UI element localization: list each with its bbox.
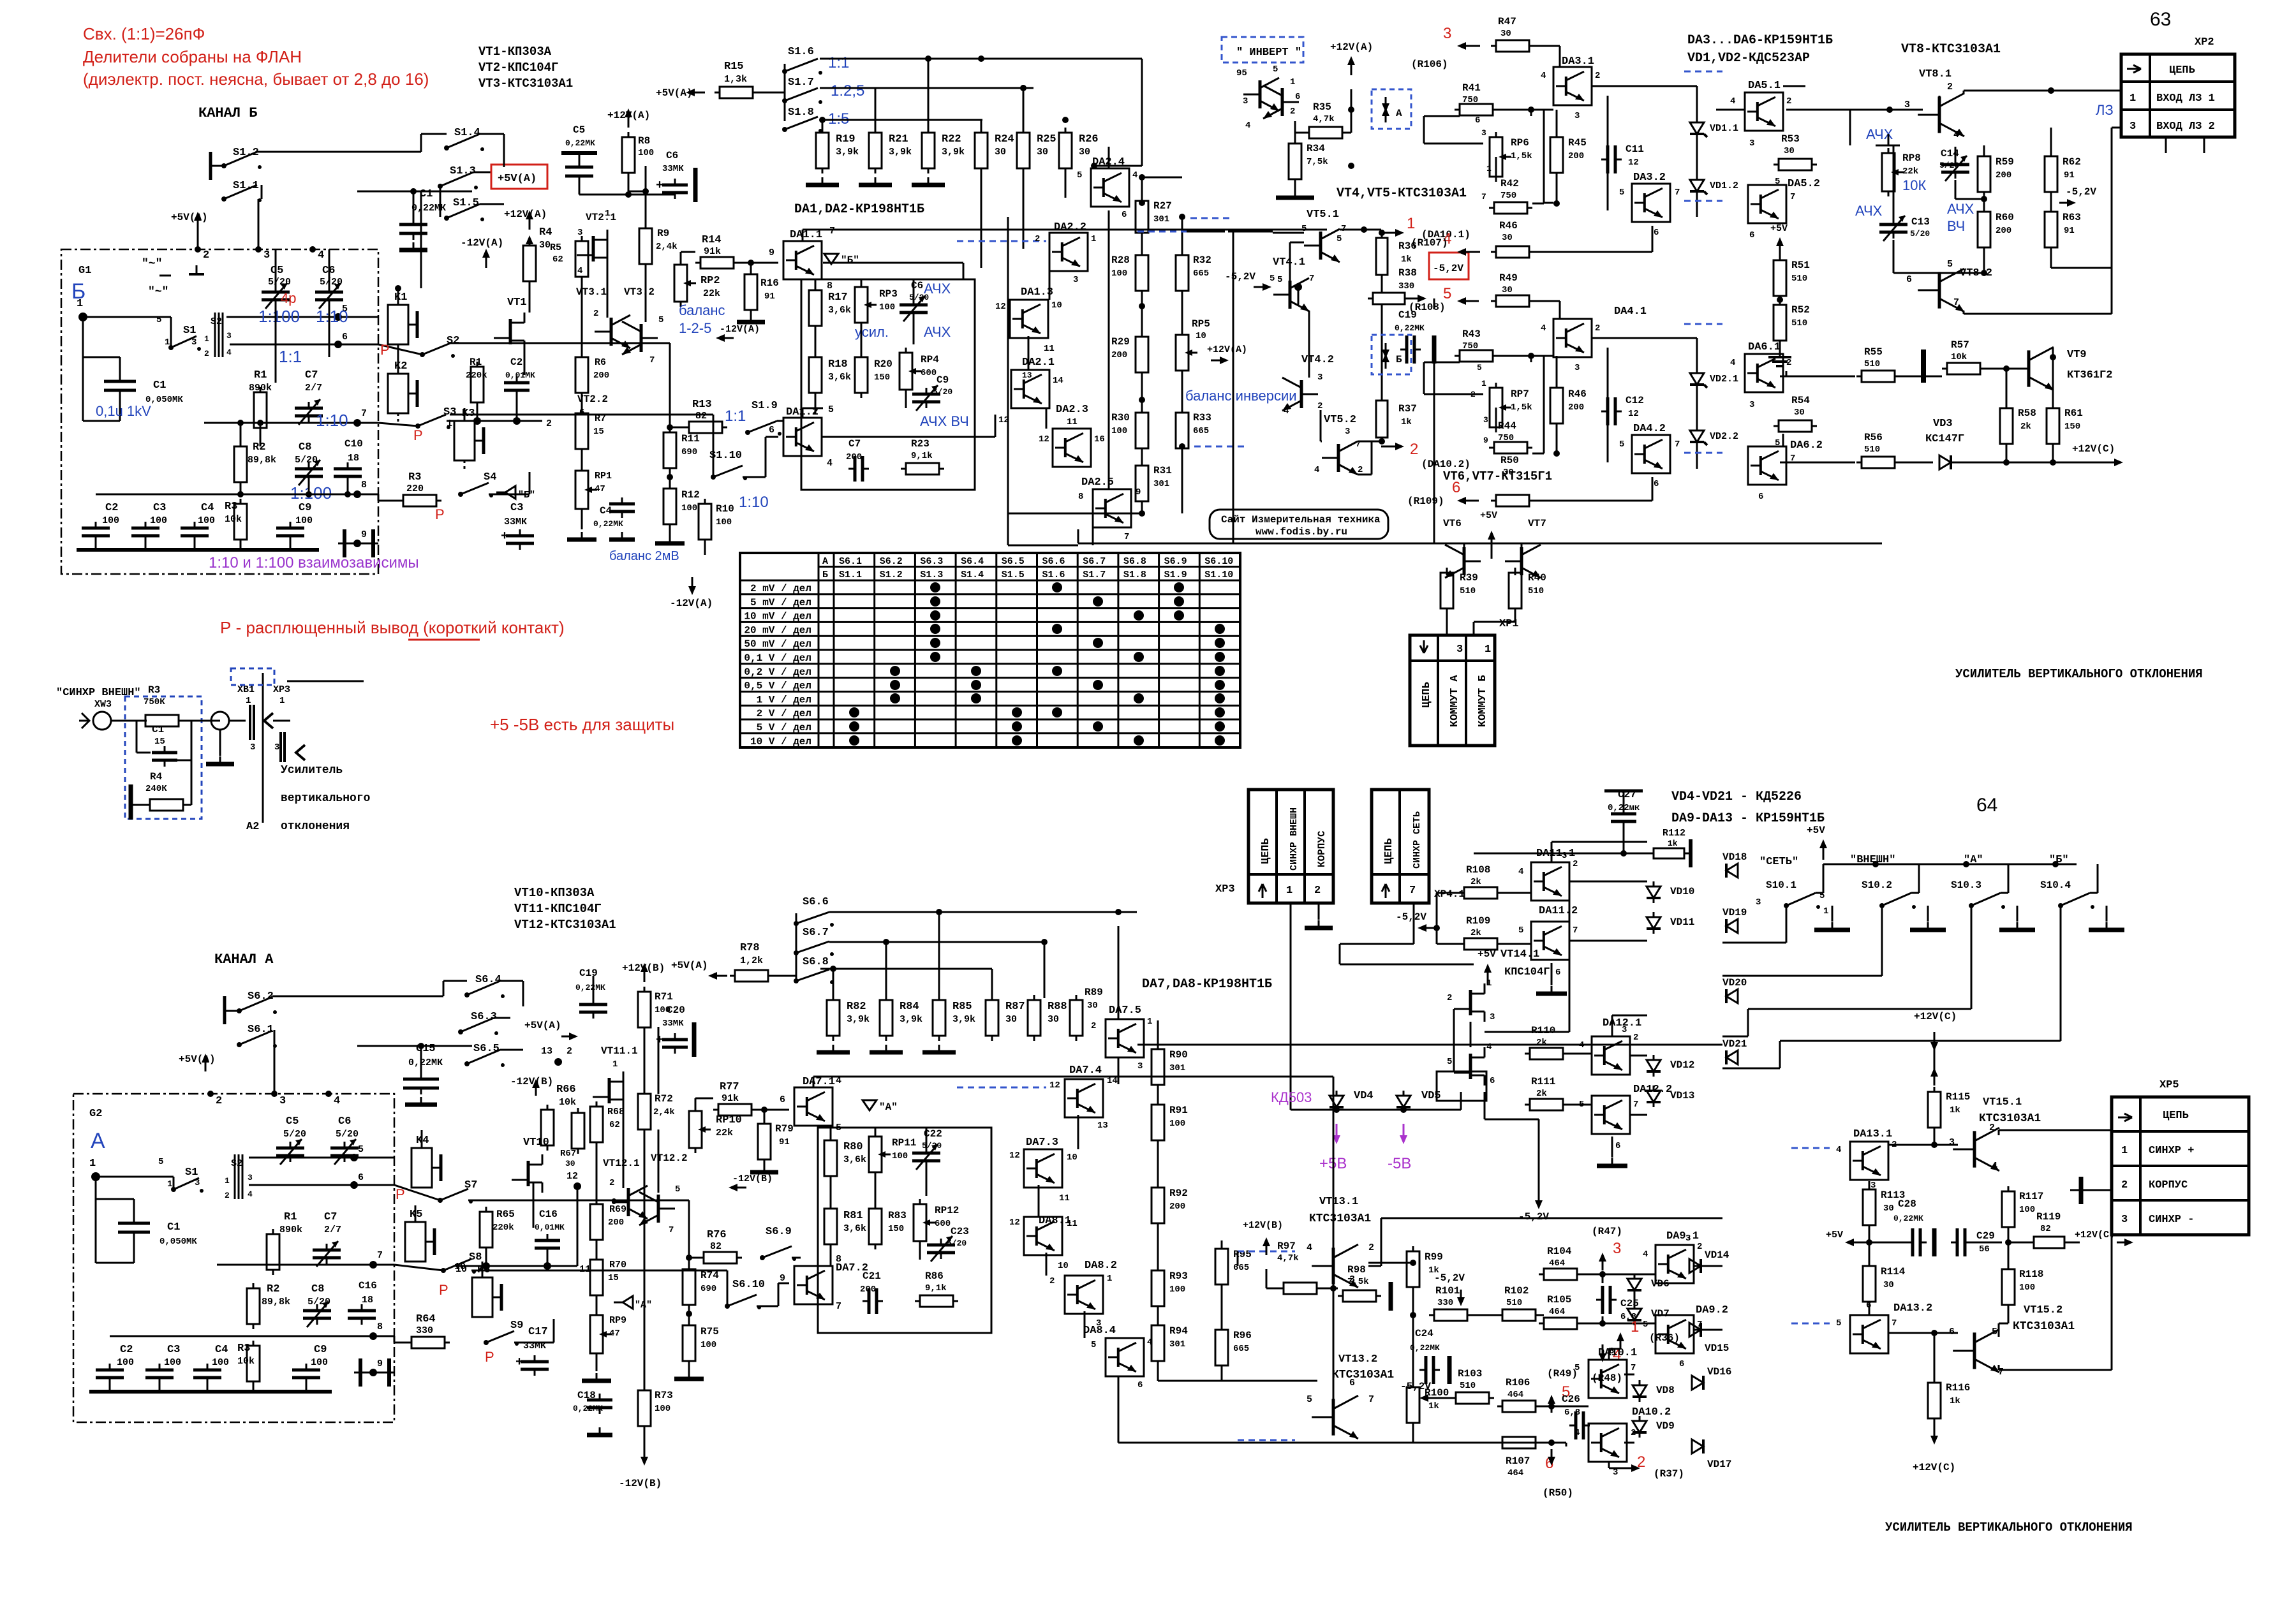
pot RP12 600 (914, 1204, 926, 1241)
svg-text:ВХОД ЛЗ 2: ВХОД ЛЗ 2 (2156, 121, 2215, 133)
svg-text:R14: R14 (702, 234, 722, 246)
svg-text:6,8: 6,8 (1564, 1408, 1580, 1418)
svg-text:200: 200 (608, 1218, 624, 1228)
svg-text:VD4: VD4 (1354, 1090, 1374, 1102)
svg-text:C6: C6 (338, 1115, 351, 1128)
svg-text:R44: R44 (1498, 420, 1516, 432)
svg-text:R69: R69 (609, 1204, 626, 1215)
ground da12 (1611, 1158, 1613, 1166)
svg-text:8: 8 (1078, 492, 1083, 502)
svg-text:62: 62 (552, 254, 563, 265)
resistor R116 1k (1928, 1383, 1941, 1418)
svg-text:R54: R54 (1791, 395, 1810, 406)
svg-text:4: 4 (1314, 465, 1319, 475)
svg-text:4,7k: 4,7k (1277, 1253, 1299, 1263)
wire C10 to bus8 (347, 476, 349, 494)
svg-text:4: 4 (1643, 1249, 1648, 1260)
svg-text:R13: R13 (692, 399, 712, 411)
transistor VT12.2 (657, 1195, 660, 1223)
svg-text:3: 3 (1345, 427, 1350, 437)
svg-text:1:2,5: 1:2,5 (831, 82, 864, 99)
wire VT5.1 out (1340, 229, 1381, 231)
svg-text:C1: C1 (153, 379, 166, 392)
svg-text:-5,2V: -5,2V (1400, 1381, 1431, 1392)
resistor R89 30 (1070, 1000, 1083, 1036)
svg-text:RP8: RP8 (1902, 152, 1921, 164)
svg-text:2 mV / дел: 2 mV / дел (750, 583, 811, 594)
pot RP3 100 (855, 287, 868, 323)
bus DA2 to inv (1137, 231, 1225, 233)
svg-text:VT12-КТС3103А1: VT12-КТС3103А1 (514, 918, 616, 932)
transistor VT13.1 (1332, 1247, 1335, 1284)
svg-text:R24: R24 (995, 133, 1014, 145)
svg-text:VT12.2: VT12.2 (651, 1152, 688, 1164)
svg-text:3: 3 (1574, 363, 1580, 373)
svg-text:7: 7 (1953, 297, 1959, 308)
ground R79 (764, 1165, 766, 1172)
svg-text:4,7k: 4,7k (1313, 114, 1335, 124)
svg-text:50 mV / дел: 50 mV / дел (744, 638, 811, 650)
svg-text:330: 330 (1437, 1298, 1453, 1308)
svg-text:30: 30 (1087, 1001, 1098, 1011)
svg-text:301: 301 (1153, 214, 1169, 224)
svg-text:+12V(С): +12V(С) (2075, 1230, 2115, 1240)
svg-text:6: 6 (1137, 1380, 1143, 1390)
svg-text:15: 15 (154, 737, 165, 747)
diode VD10 (1647, 887, 1661, 898)
svg-text:S6.3: S6.3 (920, 556, 943, 567)
svg-text:464: 464 (1507, 1468, 1523, 1478)
wire VT10 source (533, 1182, 535, 1228)
svg-text:89,8k: 89,8k (262, 1297, 290, 1307)
svg-text:RP1: RP1 (595, 471, 612, 482)
wire bus6A to R74 (468, 1200, 689, 1202)
svg-text:510: 510 (1864, 359, 1880, 369)
svg-text:7: 7 (1309, 274, 1314, 284)
svg-text:R74: R74 (700, 1270, 719, 1281)
svg-text:11: 11 (1059, 1193, 1070, 1203)
resistor R58 2k (2000, 408, 2013, 444)
resistor R72 2.4k (638, 1094, 651, 1130)
pot RP4 600 (900, 353, 912, 390)
svg-text:R64: R64 (416, 1313, 436, 1325)
svg-text:5: 5 (1947, 259, 1953, 270)
svg-text:14: 14 (1107, 1076, 1118, 1086)
svg-text:2k: 2k (1470, 928, 1481, 938)
resistor R10 100 (699, 504, 711, 540)
svg-text:R49: R49 (1499, 272, 1518, 284)
svg-text:3,9k: 3,9k (836, 147, 859, 158)
svg-text:2: 2 (567, 1046, 572, 1057)
svg-text:DA6.2: DA6.2 (1790, 439, 1823, 452)
svg-text:КПС104Г: КПС104Г (1504, 966, 1550, 978)
wire XP3 pin1 down (1290, 903, 1292, 1110)
svg-text:DA7.3: DA7.3 (1026, 1137, 1058, 1149)
svg-text:5: 5 (1307, 1394, 1312, 1405)
svg-text:ХР2: ХР2 (2195, 36, 2214, 48)
svg-text:-12V(А): -12V(А) (670, 598, 713, 609)
svg-text:S6.9: S6.9 (1164, 556, 1187, 567)
svg-text:1: 1 (1486, 978, 1492, 989)
wire VT8.2 emitter out (1963, 311, 1965, 314)
svg-text:1: 1 (1286, 885, 1292, 897)
svg-text:0,22МК: 0,22МК (1410, 1343, 1440, 1353)
svg-text:1: 1 (225, 1176, 230, 1186)
svg-text:DA2.3: DA2.3 (1056, 404, 1088, 416)
svg-text:R66: R66 (556, 1084, 576, 1096)
svg-text:6: 6 (1475, 115, 1480, 126)
resistor R73 100 (638, 1390, 651, 1426)
svg-text:1: 1 (1631, 1318, 1639, 1336)
wire kanalA bus1 (1118, 1397, 1120, 1443)
svg-text:9: 9 (769, 247, 774, 258)
svg-text:Делители собраны на ФЛАН: Делители собраны на ФЛАН (83, 47, 302, 66)
ground RP1 (581, 532, 583, 540)
svg-text:S6.6: S6.6 (1042, 556, 1065, 567)
svg-text:R41: R41 (1462, 82, 1481, 94)
bus xp2 right col (2165, 137, 2167, 153)
svg-text:+5V(A): +5V(A) (171, 212, 208, 223)
svg-text:5: 5 (1574, 1363, 1580, 1373)
svg-text:2: 2 (1035, 234, 1040, 244)
wire da9 (1577, 1274, 1655, 1276)
zener VD1.1 (1690, 122, 1704, 134)
blue dashes ladder2 (1194, 446, 1244, 448)
svg-text:C12: C12 (1626, 395, 1644, 406)
svg-text:2: 2 (2121, 1179, 2128, 1191)
resistor R84 3.9k (880, 1000, 892, 1036)
svg-text:7: 7 (1124, 532, 1129, 542)
svg-text:665: 665 (1233, 1263, 1249, 1273)
svg-text:VD7: VD7 (1651, 1308, 1670, 1320)
svg-text:Р: Р (439, 1282, 448, 1298)
transistor VT15.2 (1973, 1332, 1976, 1369)
svg-text:510: 510 (1460, 1381, 1476, 1391)
svg-text:ХР5: ХР5 (2159, 1079, 2179, 1091)
svg-text:5: 5 (1447, 1057, 1452, 1067)
svg-text:VT8-КТС3103А1: VT8-КТС3103А1 (1901, 42, 2001, 57)
svg-text:S6.9: S6.9 (766, 1226, 792, 1238)
svg-text:9: 9 (361, 529, 367, 540)
red box -5.2V (1429, 253, 1469, 279)
svg-text:62: 62 (609, 1120, 620, 1130)
svg-text:VD15: VD15 (1705, 1343, 1729, 1354)
svg-text:82: 82 (695, 411, 707, 422)
svg-text:13: 13 (541, 1046, 552, 1057)
svg-text:4: 4 (318, 249, 324, 261)
svg-text:1: 1 (2129, 92, 2136, 105)
svg-text:5/20: 5/20 (1910, 229, 1930, 239)
fet VT2.1 (592, 236, 595, 261)
svg-text:3,9k: 3,9k (847, 1014, 870, 1025)
svg-text:63: 63 (2150, 9, 2171, 30)
svg-text:3: 3 (1904, 99, 1910, 110)
svg-text:C20: C20 (667, 1005, 685, 1016)
transistor VT3.2 (640, 324, 643, 352)
wire r62 r63 join (2051, 267, 2112, 269)
svg-text:0,22МК: 0,22МК (575, 983, 605, 992)
svg-text:2: 2 (1410, 441, 1418, 458)
svg-text:6: 6 (769, 425, 774, 436)
svg-text:1: 1 (1091, 234, 1096, 244)
svg-text:10 mV / дел: 10 mV / дел (744, 611, 811, 622)
svg-text:R72: R72 (655, 1093, 673, 1105)
label -12V(B) bottom (644, 1446, 646, 1461)
svg-text:S10.2: S10.2 (1862, 879, 1892, 891)
node bus 6 A (249, 1184, 394, 1186)
svg-text:12: 12 (995, 302, 1006, 312)
svg-text:600: 600 (935, 1219, 951, 1229)
svg-text:DA9-DA13 - КР159НТ1Б: DA9-DA13 - КР159НТ1Б (1671, 811, 1825, 826)
wire VT1 source down (524, 341, 526, 375)
svg-text:R46: R46 (1568, 388, 1587, 400)
svg-text:S6.10: S6.10 (732, 1279, 765, 1291)
diode VD19 (1726, 919, 1738, 933)
svg-text:R37: R37 (1398, 403, 1417, 415)
svg-text:3: 3 (1317, 372, 1322, 383)
svg-text:91: 91 (2064, 226, 2075, 236)
svg-text:2: 2 (1049, 1276, 1055, 1286)
svg-text:DA1,DA2-КР198НТ1Б: DA1,DA2-КР198НТ1Б (794, 202, 924, 217)
svg-text:C11: C11 (1626, 144, 1644, 155)
zener VD2.1 (1690, 373, 1704, 385)
svg-text:5: 5 (158, 1157, 163, 1167)
resistor R29 200 (1136, 337, 1148, 372)
svg-text:R8: R8 (638, 135, 650, 147)
resistor R39 510 (1441, 573, 1453, 608)
resistor R70 15 (590, 1260, 603, 1295)
svg-text:VT11-КПС104Г: VT11-КПС104Г (514, 902, 602, 916)
blue dash da13b (1791, 1323, 1830, 1325)
svg-text:12: 12 (1049, 1080, 1060, 1091)
svg-text:VD16: VD16 (1707, 1366, 1731, 1378)
svg-text:DA9.1: DA9.1 (1666, 1230, 1699, 1242)
nabla A symbol (863, 1100, 877, 1110)
svg-text:1k: 1k (1950, 1396, 1960, 1406)
transistor VT5.2 (1337, 444, 1340, 472)
svg-text:R57: R57 (1951, 339, 1969, 351)
svg-text:1: 1 (2121, 1145, 2128, 1157)
svg-text:-12V(В): -12V(В) (510, 1076, 553, 1087)
svg-text:8: 8 (377, 1321, 383, 1332)
wire vt14 (1470, 1022, 1472, 1047)
wire RP10-R77-DA7.1 (695, 1098, 697, 1111)
svg-text:6: 6 (1679, 1359, 1684, 1369)
svg-text:+5V: +5V (1770, 223, 1788, 234)
ground R85 (938, 1045, 940, 1052)
svg-text:VD1.2: VD1.2 (1710, 180, 1738, 191)
svg-text:1k: 1k (1401, 254, 1412, 265)
svg-text:R3: R3 (148, 684, 160, 696)
svg-text:DA8.2: DA8.2 (1085, 1260, 1117, 1272)
svg-text:22k: 22k (1902, 166, 1918, 177)
transistor VT13.2 (1332, 1399, 1335, 1435)
svg-text:А: А (1396, 108, 1402, 119)
svg-text:7: 7 (1573, 925, 1578, 936)
resistor R118 100 (2002, 1269, 2015, 1305)
ground R84 (885, 1045, 887, 1052)
svg-text:3: 3 (250, 742, 255, 753)
svg-text:RP3: RP3 (879, 288, 898, 300)
line A2 boundary (262, 673, 264, 823)
svg-text:R63: R63 (2063, 212, 2081, 223)
svg-text:R43: R43 (1462, 328, 1481, 340)
svg-text:4: 4 (1541, 323, 1546, 334)
svg-text:3: 3 (1490, 1012, 1495, 1022)
svg-text:665: 665 (1233, 1344, 1249, 1354)
diode VD5 (1396, 1096, 1411, 1107)
svg-text:7: 7 (361, 408, 367, 419)
svg-text:4: 4 (1836, 1145, 1841, 1155)
svg-text:баланс инверсии: баланс инверсии (1185, 388, 1297, 404)
svg-text:VT3.1: VT3.1 (576, 286, 607, 298)
svg-text:R45: R45 (1568, 137, 1587, 149)
svg-text:C28: C28 (1898, 1198, 1916, 1210)
wire DA2 col verticals (1108, 210, 1110, 489)
wire bypass node (579, 194, 675, 196)
power +12VC bottom (1934, 1425, 1936, 1439)
svg-text:200: 200 (1568, 402, 1584, 413)
svg-text:R58: R58 (2018, 408, 2036, 419)
svg-text:УСИЛИТЕЛЬ ВЕРТИКАЛЬНОГО ОТКЛОН: УСИЛИТЕЛЬ ВЕРТИКАЛЬНОГО ОТКЛОНЕНИЯ (1885, 1520, 2133, 1534)
svg-text:VD19: VD19 (1722, 907, 1747, 918)
svg-text:ХР1: ХР1 (1499, 618, 1519, 630)
svg-text:1:10: 1:10 (316, 411, 348, 430)
svg-text:R33: R33 (1193, 412, 1211, 423)
svg-text:3: 3 (1456, 644, 1463, 656)
svg-text:100: 100 (655, 1404, 670, 1414)
svg-text:R119: R119 (2036, 1211, 2061, 1223)
svg-text:R101: R101 (1435, 1285, 1460, 1297)
svg-text:VT2.2: VT2.2 (577, 394, 608, 405)
svg-text:R71: R71 (655, 991, 673, 1003)
svg-text:R76: R76 (707, 1229, 727, 1241)
svg-text:баланс: баланс (679, 302, 725, 318)
wire S9 right (514, 1342, 554, 1344)
svg-text:30: 30 (1502, 233, 1513, 243)
svg-text:0,1 V / дел: 0,1 V / дел (744, 652, 811, 664)
svg-text:C16: C16 (539, 1209, 558, 1220)
svg-text:VD17: VD17 (1707, 1459, 1731, 1470)
bus A 3 (820, 968, 992, 970)
svg-text:0,22МК: 0,22МК (1893, 1214, 1923, 1223)
resistor R9 2.4k (639, 228, 652, 264)
svg-text:C5: C5 (270, 265, 283, 277)
trim cap C14 (1941, 163, 1969, 166)
wire vt13 links (1266, 1269, 1268, 1288)
wire da12 (1563, 1053, 1592, 1055)
svg-text:VT6: VT6 (1443, 518, 1462, 529)
svg-text:C25: C25 (1620, 1298, 1639, 1309)
speaker symbol B (496, 486, 515, 499)
svg-text:C9: C9 (314, 1344, 327, 1356)
svg-text:11: 11 (1067, 417, 1078, 427)
pin 9 ground (353, 540, 361, 547)
svg-text:100: 100 (879, 302, 895, 313)
resistor R96 665 (1215, 1330, 1228, 1365)
svg-text:C19: C19 (579, 968, 598, 979)
svg-text:S1.5: S1.5 (453, 197, 479, 209)
svg-text:2,4k: 2,4k (656, 242, 678, 252)
diode VD7 (1627, 1309, 1641, 1320)
svg-text:3: 3 (1756, 897, 1761, 908)
svg-text:1: 1 (1486, 164, 1492, 173)
svg-text:2/7: 2/7 (305, 383, 322, 394)
svg-text:6: 6 (1349, 1378, 1355, 1388)
pot RP11 100 (869, 1137, 882, 1172)
svg-text:DA10.2: DA10.2 (1632, 1406, 1671, 1418)
svg-text:82: 82 (2040, 1224, 2051, 1234)
svg-text:VT9: VT9 (2067, 349, 2087, 361)
resistor R6 200 (575, 357, 588, 393)
resistor R51 510 (1774, 260, 1786, 296)
resistor R22 3.9k (922, 133, 935, 168)
svg-text:R90: R90 (1169, 1049, 1188, 1061)
pin 3 top A (271, 1091, 278, 1097)
svg-text:R47: R47 (1498, 16, 1516, 27)
wire DA7.5 top (1118, 995, 1120, 1019)
svg-text:2k: 2k (2020, 422, 2031, 432)
svg-text:-5,2V: -5,2V (1434, 1272, 1465, 1284)
svg-text:R15: R15 (724, 61, 744, 73)
resistor R32 665 (1176, 255, 1189, 291)
svg-text:22k: 22k (703, 288, 720, 299)
ground R75 (688, 1371, 690, 1379)
svg-text:ВЧ: ВЧ (1947, 218, 1965, 234)
svg-text:-5,2V: -5,2V (2066, 186, 2096, 198)
svg-text:2: 2 (225, 1191, 230, 1200)
svg-text:4: 4 (248, 1189, 253, 1199)
svg-text:-5,2V: -5,2V (1433, 263, 1463, 274)
svg-text:R29: R29 (1111, 336, 1130, 348)
svg-text:(R47): (R47) (1592, 1226, 1622, 1237)
svg-text:КД503: КД503 (1271, 1089, 1312, 1105)
svg-text:12: 12 (567, 1171, 578, 1182)
svg-text:4: 4 (1132, 170, 1137, 180)
svg-text:DA4.2: DA4.2 (1633, 423, 1666, 435)
svg-text:G1: G1 (78, 265, 91, 277)
svg-text:82: 82 (710, 1241, 722, 1252)
svg-text:7: 7 (377, 1250, 383, 1261)
svg-text:1: 1 (246, 696, 251, 706)
wire XP4 pin7 down (1413, 903, 1415, 944)
resistor R87 30 (986, 1000, 998, 1036)
wire VT1 drain (529, 281, 531, 313)
svg-text:RP11: RP11 (892, 1137, 916, 1149)
svg-text:Усилитель: Усилитель (281, 764, 343, 777)
resistor R18 3.6k (809, 357, 822, 393)
svg-text:R79: R79 (775, 1123, 794, 1135)
pin 2 top (195, 246, 201, 253)
svg-text:6: 6 (342, 332, 348, 342)
node bus 8 (96, 494, 378, 496)
svg-text:Р: Р (396, 1186, 405, 1202)
svg-text:R88: R88 (1048, 1001, 1067, 1013)
svg-text:330: 330 (1398, 281, 1414, 291)
svg-text:6: 6 (1615, 1141, 1620, 1151)
svg-text:5/20: 5/20 (268, 277, 291, 288)
svg-text:КОРПУС: КОРПУС (2149, 1179, 2188, 1191)
svg-text:R114: R114 (1881, 1266, 1906, 1277)
svg-text:(R106): (R106) (1411, 59, 1448, 70)
svg-text:DA7.4: DA7.4 (1069, 1064, 1102, 1077)
svg-text:VT10-КП303А: VT10-КП303А (514, 886, 595, 900)
svg-text:100: 100 (700, 1340, 716, 1350)
resistor R46b 200 (1550, 388, 1563, 423)
svg-text:S1.2: S1.2 (880, 570, 903, 580)
bus A 2 (829, 941, 1044, 943)
svg-text:RP5: RP5 (1192, 318, 1210, 330)
